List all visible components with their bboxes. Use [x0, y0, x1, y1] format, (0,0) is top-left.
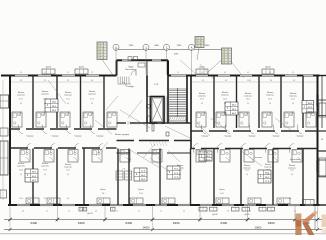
- svg-text:0,9: 0,9: [249, 211, 251, 213]
- svg-text:21: 21: [227, 63, 229, 65]
- svg-text:ДмСЖ: ДмСЖ: [244, 214, 250, 216]
- svg-text:Коридор: Коридор: [52, 136, 59, 138]
- svg-text:0,9: 0,9: [247, 72, 249, 74]
- svg-text:1,2: 1,2: [269, 72, 271, 74]
- svg-text:комната: комната: [289, 96, 297, 98]
- svg-text:27: 27: [200, 38, 202, 40]
- svg-text:1,5: 1,5: [20, 72, 22, 74]
- svg-text:1,2: 1,2: [46, 211, 48, 213]
- svg-text:13: 13: [102, 49, 104, 51]
- svg-text:24000: 24000: [143, 226, 150, 229]
- svg-text:комната: комната: [41, 94, 49, 96]
- svg-text:0,9: 0,9: [22, 211, 24, 213]
- svg-text:1,2: 1,2: [160, 211, 162, 213]
- svg-text:3,1: 3,1: [44, 103, 46, 105]
- svg-text:9,4: 9,4: [67, 198, 70, 200]
- svg-text:6400: 6400: [173, 221, 180, 225]
- svg-text:комната: комната: [17, 95, 25, 97]
- svg-text:6400: 6400: [78, 221, 85, 225]
- svg-text:4,2: 4,2: [20, 103, 22, 105]
- svg-text:4,2: 4,2: [20, 174, 22, 176]
- svg-text:комната: комната: [17, 166, 25, 168]
- svg-text:9,4: 9,4: [289, 198, 292, 200]
- svg-text:0,9: 0,9: [224, 72, 226, 74]
- svg-text:1,2: 1,2: [294, 211, 296, 213]
- svg-text:2,1: 2,1: [44, 80, 47, 82]
- svg-text:Коридор: Коридор: [97, 136, 104, 138]
- svg-text:Тамбур: Тамбур: [126, 86, 134, 88]
- svg-text:1,2: 1,2: [116, 211, 118, 213]
- svg-text:1,2: 1,2: [67, 72, 69, 74]
- svg-text:комната: комната: [41, 166, 49, 168]
- svg-text:2,4: 2,4: [201, 103, 203, 105]
- svg-text:17,9: 17,9: [90, 99, 94, 101]
- svg-text:17,9: 17,9: [43, 99, 47, 101]
- svg-text:3,2: 3,2: [293, 80, 296, 82]
- svg-text:17,9: 17,9: [200, 99, 204, 101]
- svg-text:15,2: 15,2: [178, 170, 182, 172]
- svg-text:4,2: 4,2: [267, 174, 269, 176]
- svg-text:комната: комната: [88, 94, 96, 96]
- svg-text:Коридор: Коридор: [273, 136, 280, 138]
- svg-text:4,2: 4,2: [44, 174, 46, 176]
- svg-text:комната: комната: [221, 95, 229, 97]
- svg-text:комната: комната: [198, 96, 206, 98]
- svg-text:Кухня: Кухня: [219, 189, 224, 191]
- svg-text:2,4: 2,4: [224, 103, 226, 105]
- svg-text:16,4: 16,4: [223, 99, 227, 101]
- svg-text:3,1: 3,1: [91, 103, 93, 105]
- svg-text:ДмСЖ: ДмСЖ: [87, 213, 93, 215]
- svg-text:79: 79: [200, 46, 202, 48]
- svg-text:41: 41: [102, 55, 104, 57]
- svg-text:Лифт.: Лифт.: [128, 66, 134, 69]
- svg-text:12,8: 12,8: [245, 170, 249, 172]
- svg-text:Кухня: Кухня: [100, 189, 105, 191]
- svg-text:Коридор: Коридор: [297, 136, 304, 138]
- svg-text:16,4: 16,4: [268, 99, 272, 101]
- svg-text:Коридор: Коридор: [249, 136, 256, 138]
- svg-text:3,1: 3,1: [179, 174, 181, 176]
- svg-text:20800: 20800: [255, 226, 262, 229]
- svg-text:2,4: 2,4: [67, 103, 69, 105]
- svg-text:15,2: 15,2: [19, 99, 23, 101]
- svg-text:15,2: 15,2: [66, 99, 70, 101]
- svg-text:17,9: 17,9: [43, 170, 47, 172]
- svg-text:1,5: 1,5: [201, 72, 203, 74]
- svg-text:9,4: 9,4: [91, 80, 94, 82]
- svg-text:Межкв. коридор: Межкв. коридор: [115, 134, 129, 136]
- svg-text:0,9: 0,9: [271, 211, 273, 213]
- svg-text:16,4: 16,4: [266, 170, 270, 172]
- svg-text:Коридор: Коридор: [27, 136, 34, 138]
- svg-text:ДмСЖ: ДмСЖ: [212, 214, 218, 216]
- svg-text:45: 45: [102, 52, 104, 54]
- svg-text:Гостиная: Гостиная: [254, 157, 262, 159]
- svg-text:15,8: 15,8: [247, 80, 251, 82]
- svg-text:Коридор: Коридор: [225, 136, 232, 138]
- svg-text:1,2: 1,2: [68, 211, 70, 213]
- svg-text:4,2: 4,2: [67, 174, 69, 176]
- svg-text:24: 24: [102, 46, 104, 48]
- svg-text:1,2: 1,2: [91, 72, 93, 74]
- svg-text:1,5: 1,5: [177, 72, 179, 74]
- svg-text:38: 38: [102, 58, 104, 60]
- svg-text:16,4: 16,4: [246, 99, 250, 101]
- svg-text:2,4: 2,4: [246, 174, 248, 176]
- svg-text:3,2: 3,2: [20, 80, 23, 82]
- svg-text:6400: 6400: [220, 221, 227, 225]
- svg-text:96: 96: [200, 43, 202, 45]
- svg-text:ДмСВ: ДмСВ: [266, 67, 272, 69]
- svg-text:3,2: 3,2: [44, 198, 47, 200]
- svg-text:6400: 6400: [268, 221, 275, 225]
- svg-text:9,4: 9,4: [270, 80, 273, 82]
- svg-text:15,2: 15,2: [291, 99, 295, 101]
- svg-text:91: 91: [102, 43, 104, 45]
- svg-text:2,1: 2,1: [202, 80, 205, 82]
- svg-text:9,8: 9,8: [102, 193, 105, 195]
- svg-text:комната: комната: [64, 95, 72, 97]
- svg-text:4,2: 4,2: [291, 174, 293, 176]
- svg-text:1,2: 1,2: [44, 72, 46, 74]
- svg-text:15,8: 15,8: [19, 198, 23, 200]
- svg-text:2,4: 2,4: [269, 103, 271, 105]
- svg-text:комната: комната: [244, 96, 252, 98]
- svg-text:Коридор: Коридор: [202, 136, 209, 138]
- svg-text:комната: комната: [266, 95, 274, 97]
- svg-text:0,9: 0,9: [95, 211, 97, 213]
- svg-text:2,1: 2,1: [67, 80, 70, 82]
- svg-text:2,1: 2,1: [129, 159, 132, 161]
- svg-text:23: 23: [200, 41, 202, 43]
- svg-text:Кухня-ниша: Кухня-ниша: [290, 159, 300, 161]
- svg-text:Вестибюль: Вестибюль: [125, 69, 137, 71]
- svg-text:1,5: 1,5: [292, 72, 294, 74]
- svg-text:комната: комната: [264, 167, 272, 169]
- svg-text:3,2: 3,2: [225, 80, 228, 82]
- svg-text:ДмСВ: ДмСВ: [46, 67, 52, 69]
- svg-text:1,5: 1,5: [183, 211, 185, 213]
- svg-text:15,2: 15,2: [66, 170, 70, 172]
- svg-text:10,2: 10,2: [139, 193, 143, 195]
- svg-text:3,1: 3,1: [247, 103, 249, 105]
- svg-text:1,5: 1,5: [205, 211, 207, 213]
- svg-text:4,2: 4,2: [292, 103, 294, 105]
- svg-text:6400: 6400: [30, 221, 37, 225]
- svg-text:ДмСВ: ДмСВ: [79, 67, 85, 69]
- svg-text:1,5: 1,5: [138, 211, 140, 213]
- svg-text:комната: комната: [64, 167, 72, 169]
- svg-text:Кухня: Кухня: [138, 189, 143, 191]
- svg-text:16,4: 16,4: [19, 170, 23, 172]
- svg-text:Коридор: Коридор: [75, 136, 82, 138]
- svg-text:Ж: Ж: [321, 139, 323, 141]
- svg-text:0,9: 0,9: [227, 211, 229, 213]
- svg-text:15,2: 15,2: [290, 170, 294, 172]
- svg-text:6400: 6400: [125, 221, 132, 225]
- svg-text:10,2: 10,2: [220, 193, 224, 195]
